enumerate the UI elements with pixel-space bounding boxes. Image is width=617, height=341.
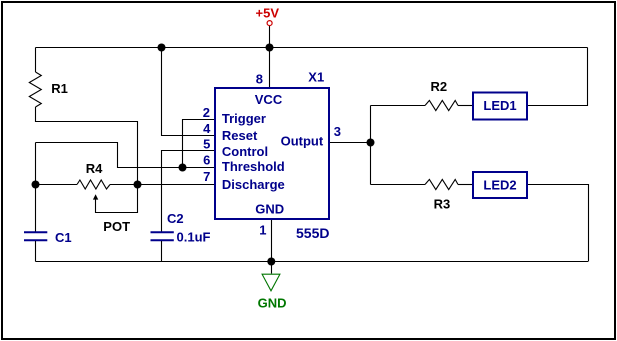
wire LED1 to top rail [527,48,588,106]
svg-text:7: 7 [203,169,210,184]
svg-text:LED1: LED1 [483,98,516,113]
svg-text:POT: POT [103,219,130,234]
wire +5V terminal to VCC pin 8 vertical [269,26,271,89]
wire pin 2 trigger [183,120,216,168]
svg-text:X1: X1 [308,70,324,85]
junction rail-pin8 [266,44,274,52]
wire bottom ground rail [36,261,589,263]
wire output branch vertical [370,106,372,185]
svg-text:Trigger: Trigger [222,111,266,126]
wire C1 bottom lead [35,241,37,262]
LED1 box [473,93,527,120]
capacitor C1 [24,231,47,233]
wire to R3 [371,184,426,186]
svg-text:4: 4 [203,121,211,136]
wire R3 to LED2 [458,184,473,186]
resistor R1 [29,72,41,107]
wire pin 7 discharge [138,184,216,186]
svg-text:Control: Control [222,144,268,159]
svg-text:+5V: +5V [256,6,280,21]
svg-text:Discharge: Discharge [222,177,285,192]
junction trigger-threshold [179,164,187,172]
ground symbol [262,274,280,291]
svg-text:GND: GND [255,201,284,216]
svg-text:555D: 555D [296,225,329,241]
potentiometer wiper arrow POT [96,185,138,213]
svg-text:6: 6 [203,153,210,168]
wire pin 4 reset to +5V rail [162,48,216,136]
wire R4 left lead [36,184,78,186]
wire top rail +5V [36,47,588,49]
wire threshold node to pin 6 [36,143,216,168]
wire R4 right lead [110,184,138,186]
svg-text:C2: C2 [167,211,184,226]
resistor R3 [425,179,458,189]
capacitor C2 [151,231,174,233]
svg-text:Threshold: Threshold [222,159,285,174]
wire threshold node down to C1 [35,143,37,232]
wire to R2 [371,105,426,107]
wire output pin 3 [329,142,371,144]
junction rail-reset [158,44,166,52]
IC X1 555 timer [215,88,329,219]
svg-text:R3: R3 [434,197,451,212]
svg-text:R1: R1 [51,81,68,96]
svg-text:8: 8 [256,72,263,87]
svg-text:Output: Output [281,134,324,149]
junction R4 right discharge node [134,181,142,189]
svg-text:2: 2 [203,105,210,120]
svg-text:3: 3 [334,124,341,139]
svg-text:GND: GND [258,296,287,311]
LED2 box [473,172,527,198]
wire R2 to LED1 [458,105,473,107]
svg-text:VCC: VCC [255,92,283,107]
svg-text:1: 1 [259,222,266,237]
resistor R2 [425,100,458,110]
wire R1 top lead [35,48,37,73]
+5V supply terminal [267,21,272,26]
junction output node [367,139,375,147]
wire pin 5 control to C2 [162,151,216,232]
junction ground node [267,258,275,266]
junction R4 left C1 node [32,181,40,189]
svg-text:5: 5 [203,137,210,152]
wire GND pin 1 [271,219,273,273]
svg-text:C1: C1 [55,230,72,245]
wire C2 bottom lead [161,241,163,262]
wire R1 bottom lead [36,107,138,185]
resistor R4 [77,180,110,189]
wire LED2 to ground rail [527,185,589,262]
svg-text:LED2: LED2 [483,177,516,192]
svg-text:R2: R2 [431,79,448,94]
svg-text:0.1uF: 0.1uF [177,230,211,245]
svg-text:Reset: Reset [222,128,258,143]
svg-text:R4: R4 [86,161,103,176]
